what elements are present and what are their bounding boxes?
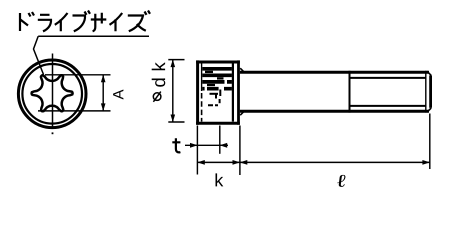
extension line screw tip [429,114,431,170]
screw head side view: outer rectangle [196,60,240,124]
shaft bottom line [240,110,429,113]
thread root top line [350,77,426,79]
underhead fillet bottom [240,112,243,115]
k left arrowhead (pointing left) [197,160,205,165]
label k [216,173,224,186]
head outer circle [18,60,86,128]
tip chamfer top diagonal [427,71,431,75]
dimension t line [185,144,228,146]
dimension A bottom arrowhead [101,103,106,111]
extension line socket depth [219,126,221,154]
k right arrowhead (pointing right) [233,160,241,165]
t right arrowhead (pointing left) [220,143,228,148]
dimension A top arrowhead [101,75,106,83]
phi-dk top arrowhead [171,59,176,67]
dimension A line [102,75,104,111]
dimension A top extension line [45,74,111,76]
dimension l line [240,161,430,163]
underhead fillet top [240,68,243,71]
dimension phi-dk line [172,60,174,122]
thread start line [349,71,351,113]
l right arrowhead (pointing right) [422,160,430,165]
label t [172,138,180,152]
head right chamfer line [232,64,234,122]
thread root bottom line [350,105,426,107]
label l (script ell) [337,175,346,187]
t left arrowhead (pointing right) [190,143,198,148]
head left chamfer line [201,64,203,92]
l left arrowhead (pointing left) [240,160,248,165]
extension line head left face [196,126,198,175]
socket stripe band 2 [202,73,232,77]
extension line head right face [239,126,241,176]
socket stripe band 1 [202,67,232,71]
tip chamfer bottom diagonal [427,108,431,112]
phi-dk bottom arrowhead [171,115,176,123]
hidden socket dashes lower half [208,90,220,106]
dimension A bottom extension line [38,110,111,112]
socket bridge dash 1 [205,71,213,73]
tip chamfer inner line [425,71,427,113]
note label "drive size" (katakana, hand-drawn paths) [20,11,150,32]
socket bridge dash 2 [217,77,224,79]
socket stripe band 4 (broken) [202,87,232,91]
leader line to socket [34,36,44,74]
label A [113,90,123,100]
dimension phi-dk bottom extension stub [168,121,184,123]
leader underline [38,35,149,37]
label phi-dk: dk text [152,62,166,87]
dimension k line [197,161,240,163]
head chamfer inner circle [22,64,82,124]
tip end face [429,75,432,107]
torx socket star [32,75,73,111]
shaft top line [240,71,429,74]
socket stripe band 3 (broken) [202,80,232,84]
socket bridge dash 3 [207,84,215,86]
centerline end dot [52,132,54,134]
dimension phi-dk top extension stub [168,59,184,61]
label phi-dk: diameter symbol [153,92,161,102]
vertical centerline [52,54,54,128]
